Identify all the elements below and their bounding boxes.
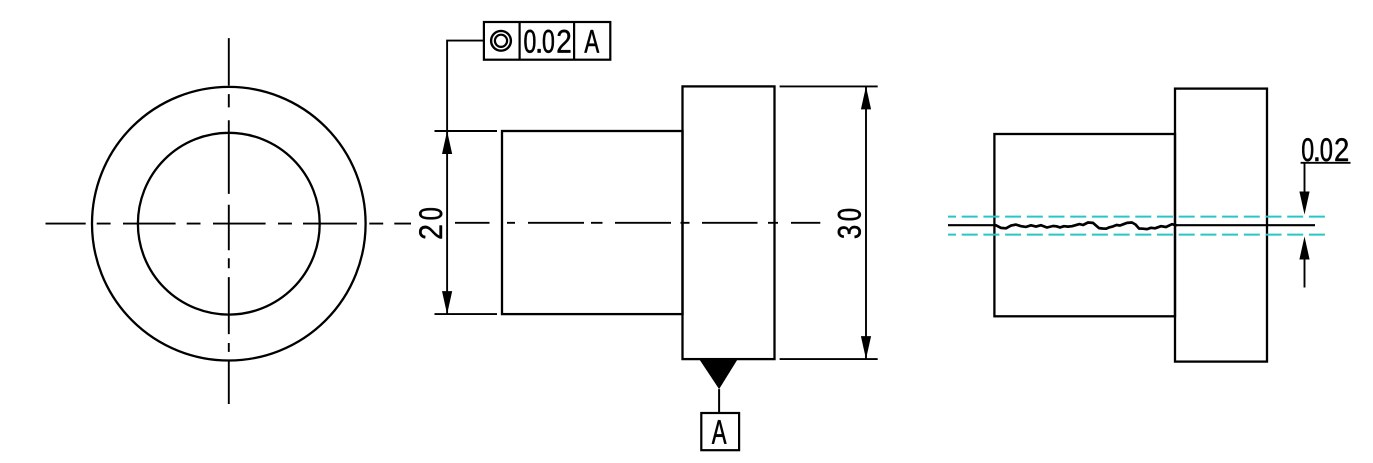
right view: small cylinder outline — [994, 134, 1175, 316]
dimension 20: extension line bottom — [435, 313, 498, 315]
leader from frame to dimension line — [447, 41, 484, 131]
dimension 30: extension line top — [780, 85, 878, 87]
front view: vertical centerline — [228, 38, 230, 404]
tolerance text 0.02 — [1302, 138, 1348, 161]
right view: large cylinder outline — [1175, 89, 1267, 362]
feature control frame: cell divider 2 — [573, 22, 575, 60]
concentricity symbol inner circle — [495, 35, 507, 47]
dimension text 30 (rotated) — [838, 209, 861, 238]
side view: small cylinder d20 outline — [502, 131, 683, 314]
dimension 20: extension line top — [435, 130, 498, 132]
text 0.02 in feature control frame — [524, 30, 570, 53]
dimension 20: arrowhead up — [442, 131, 452, 154]
tolerance zone lower boundary (cyan dashed) — [948, 234, 1329, 236]
tolerance 0.02 callout: shoulder line — [1301, 162, 1351, 164]
datum A: filled triangle on bottom face — [699, 359, 738, 389]
actual axis: wavy segment — [996, 223, 1176, 230]
front view: inner circle (d20 shaft) — [138, 133, 320, 315]
datum A: leader stem — [718, 389, 720, 413]
dimension 20: dimension line — [446, 131, 448, 314]
feature control frame: outer box — [484, 22, 610, 60]
concentricity symbol outer circle — [491, 31, 511, 51]
actual axis: straight left segment — [948, 224, 996, 226]
side view: centerline — [455, 222, 820, 224]
dimension 20: arrowhead down — [442, 291, 452, 314]
front view: horizontal centerline — [46, 223, 412, 225]
actual axis: straight right segment — [1176, 224, 1315, 226]
datum A: label box — [701, 413, 739, 450]
dimension 30: extension line bottom — [780, 358, 878, 360]
dimension text 20 (rotated) — [419, 208, 442, 238]
side view: large cylinder d30 outline — [683, 86, 775, 359]
text A in feature control frame — [584, 30, 599, 53]
dimension 30: arrowhead down — [861, 336, 871, 359]
tolerance zone upper boundary (cyan dashed) — [948, 216, 1329, 218]
front view: outer circle (d30 flange) — [92, 87, 366, 361]
dimension 30: dimension line — [865, 86, 867, 359]
tolerance 0.02 callout: lower leader with up arrow — [1304, 254, 1306, 288]
datum label A — [712, 420, 727, 444]
feature control frame: cell divider 1 — [518, 22, 520, 60]
dimension 30: arrowhead up — [861, 86, 871, 109]
tolerance 0.02 callout: upper leader with down arrow — [1304, 163, 1306, 196]
